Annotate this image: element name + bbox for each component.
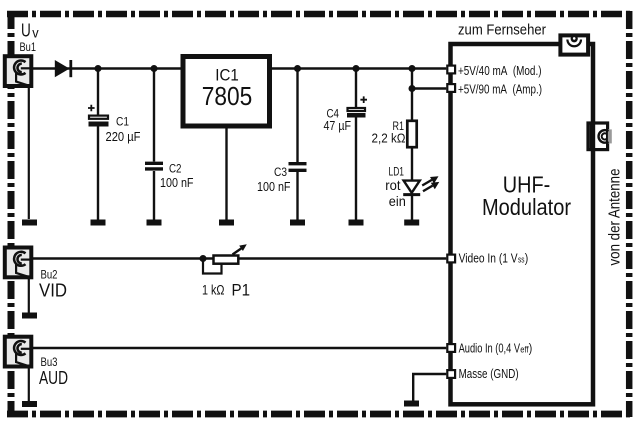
svg-text:AUD: AUD [39,368,68,388]
capacitor C1 (electrolytic) [88,105,109,127]
svg-text:ein: ein [389,193,406,209]
svg-text:U: U [21,19,31,40]
junction at +5V/90 branch [409,85,416,92]
connector Bu2 [5,247,32,277]
wire: C2 branch and ground [153,69,155,220]
svg-text:Video In (1 V: Video In (1 V [459,252,519,266]
junction at R1 top [409,65,416,72]
diode D1 [55,60,71,77]
pin Audio In square [447,344,455,352]
wire: +5V/90mA branch [412,87,446,89]
svg-text:v: v [32,24,38,40]
svg-text:C1: C1 [116,115,129,129]
ground bar at Masse wire [404,401,419,407]
ground bar below C4 [349,220,364,226]
svg-text:100 nF: 100 nF [257,180,291,194]
resistor R1 [407,121,416,147]
svg-text:Audio In (0,4 V: Audio In (0,4 V [459,341,521,355]
svg-text:C2: C2 [169,161,182,175]
wire: Bu3 shield to ground [28,367,30,402]
pin +5V/40mA square [447,66,455,74]
regulator IC1 (7805) [183,57,270,127]
ground bar below C1 [91,220,106,226]
wire: video line Bu2 to Video In pin [31,257,446,259]
ground bar below LD1 [404,220,419,226]
wire: Masse pin to ground [413,374,446,401]
wire: C1 top branch [97,69,99,115]
wire: Bu1 shield to ground [28,86,30,219]
connector: antenna input socket [588,122,612,152]
svg-text:zum Fernseher: zum Fernseher [458,22,546,39]
svg-text:1 kΩ: 1 kΩ [202,282,225,297]
svg-text:): ) [525,252,529,266]
pin Masse square [447,370,455,378]
junction at C4 [353,65,360,72]
svg-text:P1: P1 [232,281,251,300]
wire: Bu2 shield to ground [28,277,30,313]
capacitor C2 [145,163,163,169]
junction at P1 wiper [200,255,207,262]
wire: audio line Bu3 to Audio In pin [31,347,446,349]
wire: IC1 GND pin to ground [225,128,227,220]
capacitor C4 (electrolytic) [347,96,367,117]
svg-text:Bu1: Bu1 [20,42,37,54]
pin +5V/90mA square [447,84,455,92]
svg-text:+5V/90 mA (Amp.): +5V/90 mA (Amp.) [458,83,542,97]
capacitor C3 [289,164,307,171]
svg-text:C3: C3 [274,165,287,179]
ground bar below C2 [147,220,162,226]
svg-text:von der Antenne: von der Antenne [607,169,624,266]
connector Bu1 [5,56,32,86]
wire: rail to R1 top [411,69,413,120]
wire: C4 branch and ground [355,69,357,220]
potentiometer P1 [214,244,247,263]
wire: +5V rail from IC1 output to +5V/40mA pin [270,67,446,69]
ground bar below Bu1 shield [22,220,37,226]
svg-text:47 µF: 47 µF [324,119,352,133]
svg-text:Modulator: Modulator [482,194,571,220]
ground bar below C3 [290,220,305,226]
svg-text:100 nF: 100 nF [160,176,194,190]
LED LD1 [403,176,439,194]
ground bar below Bu3 shield [22,401,37,407]
junction at C2 [151,65,158,72]
connector: TV output socket [560,35,588,54]
ground bar below IC1 [219,220,234,226]
junction at C3 [294,65,301,72]
junction at C1 [95,65,102,72]
connector Bu3 [5,337,32,367]
svg-text:+5V/40 mA (Mod.): +5V/40 mA (Mod.) [458,64,542,78]
module U1 UHF-Modulator box [451,44,594,404]
ground bar below Bu2 shield [22,313,37,319]
svg-text:220 µF: 220 µF [106,130,141,144]
wire: +5V rail from Bu1/diode to IC1 input [31,67,181,69]
wire: R1 bottom to LD1 [411,149,413,181]
frame: drawn without labels (decorative boundary) [7,11,633,18]
wire: C3 branch and ground [296,69,298,220]
svg-text:7805: 7805 [202,81,253,111]
svg-text:eff: eff [520,344,529,354]
svg-text:Masse (GND): Masse (GND) [459,367,519,381]
pin Video In square [447,255,455,263]
svg-text:VID: VID [39,281,67,301]
wire: LD1 to ground [411,196,413,220]
svg-text:2,2 kΩ: 2,2 kΩ [372,131,406,145]
wire: P1 wiper loop [203,259,222,274]
svg-text:): ) [529,341,533,355]
wire: C1 to ground [97,127,99,220]
svg-text:rot: rot [385,177,400,193]
